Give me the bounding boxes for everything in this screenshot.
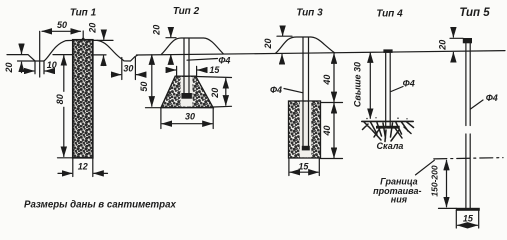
svg-text:Тип 1: Тип 1 xyxy=(70,8,97,19)
dim 15 (type 3 width) xyxy=(289,159,319,176)
label Ф4 (type 2) xyxy=(187,55,230,65)
dim 50 (type 1 top) xyxy=(40,20,85,77)
svg-text:Ф4: Ф4 xyxy=(218,55,230,65)
svg-text:50: 50 xyxy=(139,82,149,92)
svg-text:20: 20 xyxy=(88,23,98,34)
dim 50 (type 2 depth) xyxy=(139,55,161,108)
label Ф4 (type 4) xyxy=(391,78,415,91)
post type 4 xyxy=(383,49,392,126)
svg-text:Ф4: Ф4 xyxy=(403,78,415,88)
dim Свыше 30 (type 4 depth) xyxy=(352,53,370,119)
base slab type 5 xyxy=(456,208,480,228)
svg-text:Скала: Скала xyxy=(377,141,404,151)
svg-text:10: 10 xyxy=(47,60,57,70)
dim 20 (type 2 footing height) xyxy=(197,77,232,108)
post type 3 xyxy=(302,37,310,150)
dim 15 (type 5 slab) xyxy=(458,213,478,225)
note: dimensions in centimeters xyxy=(24,200,176,211)
dim 20 (left ditch depth) xyxy=(4,46,35,74)
svg-text:Свыше 30: Свыше 30 xyxy=(352,62,362,107)
label Ф4 (type 5) xyxy=(471,93,498,109)
thaw boundary dashed line xyxy=(416,158,504,175)
svg-text:Размеры даны в сантиметрах: Размеры даны в сантиметрах xyxy=(24,200,176,211)
dim 40 upper (type 3) xyxy=(321,54,343,103)
svg-text:40: 40 xyxy=(322,75,332,86)
svg-text:15: 15 xyxy=(298,162,309,172)
dim 15 (type 2 pit width) xyxy=(167,65,220,76)
svg-text:Ф4: Ф4 xyxy=(270,85,282,95)
mound type 2 xyxy=(162,38,224,54)
dim 40 lower (type 3) xyxy=(321,103,343,158)
svg-text:12: 12 xyxy=(78,161,88,171)
dim 80 (column depth) xyxy=(55,56,73,158)
dim 10 (ditch width) xyxy=(25,60,57,74)
concrete column type 1 xyxy=(73,40,93,158)
svg-text:40: 40 xyxy=(322,125,332,136)
dim 20 (type 2 mound height) xyxy=(152,25,176,62)
label Ф4 (type 3) xyxy=(270,85,303,95)
svg-text:20: 20 xyxy=(437,40,447,51)
svg-text:20: 20 xyxy=(210,88,220,99)
svg-text:20: 20 xyxy=(4,62,14,73)
dim 30 (right V ditch) xyxy=(112,58,146,80)
svg-text:150-200: 150-200 xyxy=(430,165,440,196)
svg-text:50: 50 xyxy=(57,20,67,30)
svg-text:20: 20 xyxy=(152,25,162,36)
backfill block type 3 xyxy=(289,101,321,158)
rock line and hatch (Скала) xyxy=(362,117,414,151)
footing trapezoid type 2 xyxy=(161,76,213,108)
dim 20 (mound height right) xyxy=(88,23,104,66)
svg-text:Тип 3: Тип 3 xyxy=(296,8,323,19)
post type 5 upper segment xyxy=(466,43,470,126)
mound type 1 xyxy=(44,40,138,61)
svg-text:15: 15 xyxy=(463,213,474,223)
mound type 3 xyxy=(276,37,335,53)
dim 30 (type 2 footing width) xyxy=(161,108,213,129)
svg-text:Тип 4: Тип 4 xyxy=(376,8,403,19)
svg-text:80: 80 xyxy=(55,94,65,104)
dim 20 (type 5 top) xyxy=(437,29,463,59)
ground line xyxy=(7,51,505,61)
svg-text:Тип 2: Тип 2 xyxy=(173,6,200,17)
post type 2 xyxy=(181,38,192,98)
post type 5 top cap xyxy=(463,38,472,43)
svg-text:ния: ния xyxy=(391,195,408,205)
svg-text:Ф4: Ф4 xyxy=(486,93,498,103)
dim 12 (column width) xyxy=(58,158,108,177)
svg-text:30: 30 xyxy=(185,112,195,122)
svg-text:30: 30 xyxy=(123,64,133,74)
svg-text:Тип 5: Тип 5 xyxy=(459,7,490,19)
post type 5 lower segment xyxy=(466,134,470,208)
label Граница протаивания xyxy=(373,177,421,205)
dim 20 (type 3 mound height) xyxy=(263,28,292,63)
svg-text:15: 15 xyxy=(209,65,220,75)
dim 150-200 (type 5) xyxy=(430,160,457,208)
svg-text:20: 20 xyxy=(263,38,273,49)
